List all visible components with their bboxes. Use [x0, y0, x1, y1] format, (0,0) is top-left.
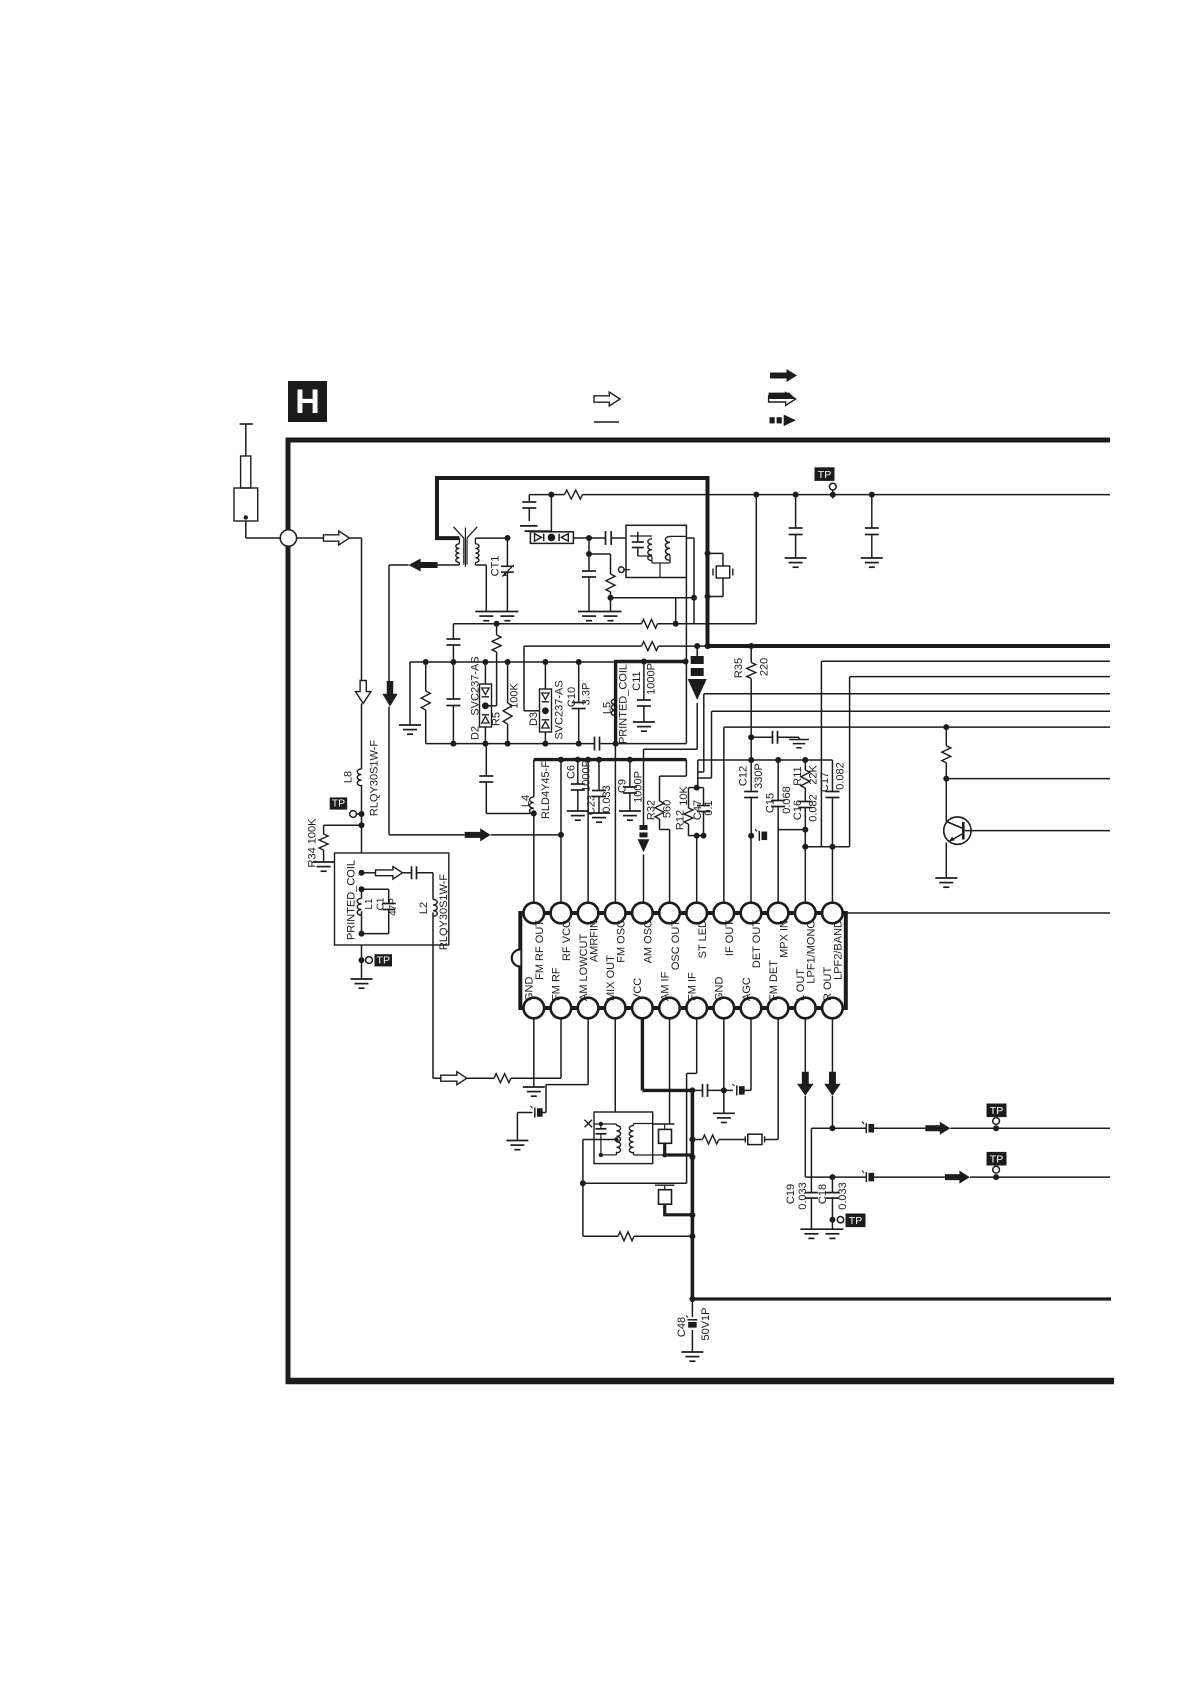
ground (L1 tank): [351, 979, 373, 988]
svg-text:50V1P: 50V1P: [700, 1307, 712, 1340]
legend half-filled arrow: [769, 393, 796, 406]
pin13 ground: [533, 1018, 535, 1087]
svg-text:LPF2/BAND: LPF2/BAND: [833, 920, 845, 980]
svg-text:L8: L8: [342, 771, 354, 783]
svg-text:L5: L5: [601, 702, 613, 714]
svg-text:560: 560: [661, 800, 673, 818]
R OUT line: [829, 1125, 835, 1131]
frame border bottom: [286, 1378, 1115, 1385]
IC pin top 1 (FM RF OUT): [524, 903, 545, 924]
node junction circle: [280, 530, 296, 546]
wire arrow down-left rail: [389, 564, 409, 566]
svg-text:PRINTED_COIL: PRINTED_COIL: [345, 860, 357, 940]
svg-text:R32: R32: [645, 800, 657, 820]
ground (resistor): [600, 612, 622, 621]
svg-text:AM IF: AM IF: [659, 971, 671, 1001]
primary bottom lead to arrow: [438, 564, 460, 566]
svg-text:22K: 22K: [807, 765, 819, 785]
pin24 R OUT arrow: [831, 1018, 833, 1072]
svg-text:RLQY30S1W-F: RLQY30S1W-F: [438, 874, 450, 950]
riser to exit 1: [820, 661, 822, 846]
svg-text:0.033: 0.033: [601, 785, 613, 813]
D1 tuning feed stem: [550, 495, 552, 532]
legend open arrow: [594, 392, 620, 406]
cap C12 330P: [748, 757, 754, 763]
svg-text:FM IF: FM IF: [687, 972, 699, 1001]
sheet zone label H: [288, 381, 327, 422]
svg-text:L OUT: L OUT: [795, 969, 807, 1001]
IC pin top 4 (FM OSC): [605, 903, 626, 924]
resistor across rails: [423, 659, 429, 665]
svg-text:PRINTED_COIL: PRINTED_COIL: [617, 664, 629, 744]
svg-text:220: 220: [758, 658, 770, 676]
svg-text:1000P: 1000P: [645, 663, 657, 695]
svg-text:L1: L1: [364, 898, 375, 910]
coil L8: [357, 769, 361, 786]
exit wire 1: [821, 660, 1110, 662]
RF VCC thick rail: [534, 758, 687, 761]
solid arrow right (FM RF to L4): [389, 834, 465, 836]
rail corner to R12/C47: [697, 760, 699, 788]
tuning voltage line to edge: [551, 494, 564, 496]
coupling cap after D1: [573, 537, 589, 539]
cap to ground under node: [588, 538, 590, 554]
svg-text:D3: D3: [528, 712, 540, 726]
FM osc feed wire with resistor: [524, 645, 642, 647]
small polarity mark: [755, 829, 767, 841]
cap C18 0.033: [831, 1128, 833, 1192]
svg-text:AGC: AGC: [741, 977, 753, 1001]
svg-text:R5: R5: [490, 712, 502, 726]
svg-text:TP: TP: [818, 469, 831, 481]
D3 feed from FM osc line: [524, 710, 540, 712]
LPF node link: [805, 846, 849, 848]
svg-text:R OUT: R OUT: [822, 967, 834, 1002]
cap lower on feed line: [452, 662, 454, 699]
svg-text:C23: C23: [585, 795, 597, 815]
open arrow down on L8 line: [355, 681, 371, 704]
exit wire from pin12 area: [846, 912, 1110, 914]
L5 bottom feed to pin4: [614, 744, 616, 903]
IC pin top 2 (RF VCC): [551, 903, 572, 924]
VCC feed to AM OSC (segmented arrows): [694, 643, 700, 649]
wire antenna to junction: [245, 521, 247, 538]
IC pin top 7 (ST LED): [686, 903, 707, 924]
svg-text:330P: 330P: [753, 763, 765, 789]
IC IF/MPX (24-pin): [520, 913, 846, 1008]
AGC line from resistor to tuner: [611, 597, 695, 599]
ceramic filter CF2: [655, 1184, 674, 1186]
L5 printed coil box: [616, 662, 687, 744]
corner up to tuning line: [755, 495, 757, 624]
pin20 ground: [721, 1087, 727, 1093]
main audio/ground bus: [691, 1090, 695, 1299]
svg-text:TP: TP: [990, 1154, 1003, 1166]
cap C9 1000P: [627, 757, 633, 763]
svg-text:R34 100K: R34 100K: [306, 818, 318, 868]
FM DET discriminator X2: [689, 1137, 695, 1143]
AM osc top rail: [410, 661, 616, 663]
svg-text:TP: TP: [332, 798, 345, 810]
L2 line down to AM mixer: [432, 945, 434, 1078]
svg-text:FM DET: FM DET: [768, 960, 780, 1001]
svg-text:47P: 47P: [388, 898, 399, 916]
svg-text:GND: GND: [714, 977, 726, 1002]
capacitor C11 1000P: [641, 659, 647, 665]
IC pin top 8 (IF OUT): [714, 903, 735, 924]
svg-text:0.033: 0.033: [797, 1182, 809, 1210]
pin14 riser: [560, 1018, 562, 1078]
TP (L8): [330, 797, 348, 809]
PRINTED_COIL module box (L1/L2/C1): [335, 853, 449, 945]
svg-text:L4: L4: [520, 795, 532, 807]
wire to L8 branch: [350, 537, 362, 539]
IC pin bottom 22 (FM DET): [768, 998, 789, 1019]
detector rail: [750, 737, 752, 760]
svg-text:D2: D2: [469, 726, 481, 740]
base line: [945, 779, 947, 822]
VCC rail from pin17: [641, 1018, 644, 1090]
antenna AN1: [240, 423, 253, 425]
svg-text:R12: R12: [674, 810, 686, 830]
coupling cap: [412, 866, 417, 879]
varactor feed line (AM): [452, 624, 454, 639]
FM IF link line: [583, 1182, 687, 1184]
ceramic filter CF1: [653, 1123, 675, 1125]
pin16 riser: [614, 1018, 616, 1112]
svg-text:10K: 10K: [678, 786, 690, 806]
IFT right edge drop to L5 box: [685, 578, 687, 662]
pin9 riser: [750, 836, 752, 903]
svg-text:C16: C16: [792, 800, 804, 820]
IC pin bottom 23 (L OUT): [795, 998, 816, 1019]
svg-text:0.1: 0.1: [703, 800, 715, 815]
svg-text:R35: R35: [733, 658, 745, 678]
coupling cap on bottom rail: [595, 737, 600, 751]
bypass cap to ground (1): [793, 492, 799, 498]
IC pin bottom 16 (MIX OUT): [605, 998, 626, 1019]
cap C17 0.082: [831, 760, 833, 792]
damping resistor: [589, 553, 611, 555]
AM bottom rail: [426, 743, 594, 745]
svg-text:RF VCC: RF VCC: [561, 920, 573, 961]
svg-text:C48: C48: [676, 1317, 688, 1337]
capacitor C10 3.3P: [576, 659, 582, 665]
riser to exit 2: [849, 677, 851, 847]
IC pin bottom 19 (FM IF): [686, 998, 707, 1019]
bypass cap to ground (2): [869, 492, 875, 498]
svg-text:C12: C12: [737, 766, 749, 786]
svg-text:0.082: 0.082: [807, 794, 819, 822]
coil L2: [432, 873, 434, 900]
cap C15 0.068: [775, 757, 781, 763]
svg-text:FM OSC: FM OSC: [616, 920, 628, 963]
cap C23 0.033: [596, 757, 602, 763]
svg-text:VCC: VCC: [632, 978, 644, 1001]
pin19 FM IF chain: [696, 1018, 698, 1073]
svg-text:C11: C11: [631, 671, 643, 690]
open arrow to L2: [376, 867, 403, 880]
AM IFT block T1: [594, 1112, 653, 1164]
X1 discriminator on bus: [705, 550, 711, 556]
svg-text:AM OSC: AM OSC: [643, 920, 655, 963]
pin21 riser: [750, 1018, 752, 1090]
cap C6 1000P: [575, 757, 581, 763]
svg-text:1000P: 1000P: [632, 771, 644, 803]
pin2 riser: [558, 757, 564, 763]
coil L4 RLD4Y45-F: [533, 760, 535, 797]
svg-text:SVC237-AS: SVC237-AS: [553, 680, 565, 739]
exit wire (base node): [946, 778, 1110, 780]
legend plain line: [594, 421, 619, 423]
svg-text:0.033: 0.033: [837, 1182, 849, 1210]
bus thick junctions: [689, 1154, 695, 1160]
exit wire 5 (IF OUT): [724, 726, 1110, 728]
svg-text:GND: GND: [524, 977, 536, 1002]
ground (transformer): [475, 612, 497, 621]
feedback resistor row: [583, 1235, 618, 1237]
legend segmented arrow: [770, 415, 796, 427]
IC pin top 10 (MPX IN): [768, 903, 789, 924]
cap to ground (R35 node): [751, 736, 772, 738]
svg-text:C10: C10: [566, 687, 578, 707]
IC pin bottom 13 (GND): [524, 998, 545, 1019]
svg-text:C18: C18: [817, 1184, 829, 1204]
svg-text:SVC237-AS: SVC237-AS: [469, 656, 481, 715]
svg-text:100K: 100K: [508, 682, 520, 708]
IC pin top 9 (DET OUT): [741, 903, 762, 924]
varactor diode D2: [482, 659, 488, 665]
svg-text:FM RF: FM RF: [551, 967, 563, 1001]
svg-text:C1: C1: [376, 897, 387, 910]
tuning line cap + AC ground: [529, 494, 551, 496]
TP (C18): [846, 1214, 866, 1228]
transformer secondary top lead to node: [475, 537, 507, 539]
IC pin top 12 (LPF2/BAND): [822, 903, 843, 924]
exit wire 2: [850, 676, 1110, 678]
exit wire 3 (ST LED): [704, 693, 1110, 695]
IC pin bottom 15 (AM LOWCUT): [578, 998, 599, 1019]
svg-text:RLD4Y45-F: RLD4Y45-F: [540, 761, 552, 819]
signal arrow (open): [324, 531, 350, 545]
resistor R35 220: [748, 643, 754, 649]
cap C19 0.033: [810, 1128, 812, 1192]
svg-text:C6: C6: [565, 765, 577, 779]
ground (C11): [633, 722, 655, 731]
TP (R OUT): [987, 1104, 1007, 1118]
svg-text:DET OUT: DET OUT: [751, 920, 763, 968]
pin3 riser: [585, 757, 591, 763]
thick feed bus from transformer to right: [437, 478, 1110, 646]
svg-text:RLQY30S1W-F: RLQY30S1W-F: [368, 740, 380, 816]
svg-text:IF OUT: IF OUT: [724, 920, 736, 956]
TP (tuning line): [815, 467, 835, 481]
svg-text:FM RF OUT: FM RF OUT: [534, 920, 546, 980]
audio return bus to edge: [689, 1296, 695, 1302]
svg-text:3.3P: 3.3P: [580, 683, 592, 706]
frame border top: [286, 438, 1111, 443]
IC pin bottom 20 (GND): [714, 998, 735, 1019]
svg-text:TP: TP: [377, 954, 390, 966]
ground (rail): [399, 725, 421, 734]
svg-text:ST LED: ST LED: [697, 920, 709, 958]
svg-text:MIX OUT: MIX OUT: [605, 955, 617, 1001]
IC pin top 6 (OSC OUT): [659, 903, 680, 924]
FM IFT block (tuner unit): [626, 525, 686, 577]
AM RF input chain: [432, 1077, 434, 1079]
svg-text:TP: TP: [849, 1215, 862, 1227]
IC pin top 11 (LPF1/MONO): [795, 903, 816, 924]
cap on feed line: [446, 639, 460, 645]
trimmer capacitor CT1: [506, 538, 508, 566]
secondary bottom lead to ground: [475, 564, 486, 566]
ground (emitter): [935, 878, 957, 887]
collector exit wire: [965, 830, 1110, 832]
ground (lowcut): [506, 1141, 528, 1150]
svg-text:CT1: CT1: [489, 556, 501, 577]
svg-text:0.082: 0.082: [834, 762, 846, 790]
IC pin bottom 17 (VCC): [632, 998, 653, 1019]
frame border left: [286, 438, 291, 1384]
resistor R34 100K to ground: [359, 822, 365, 828]
R11 22K + C16 0.082: [802, 757, 808, 763]
IC pin bottom 21 (AGC): [741, 998, 762, 1019]
D2 branch down / cap to L4: [485, 744, 487, 776]
svg-text:C15: C15: [764, 793, 776, 813]
exit wire 4 (IF): [712, 710, 1111, 712]
svg-text:MPX IN: MPX IN: [778, 920, 790, 958]
L5 coil: [611, 699, 615, 716]
cap C48 50V1P: [691, 1299, 693, 1317]
svg-text:TP: TP: [990, 1105, 1003, 1117]
svg-text:LPF1/MONO: LPF1/MONO: [806, 920, 818, 984]
svg-text:1000P: 1000P: [580, 760, 592, 792]
coil L1: [359, 886, 365, 892]
varactor diode D3: [542, 659, 548, 665]
R12 10K / C47 0.1 parallel: [694, 785, 700, 791]
svg-text:C19: C19: [785, 1184, 797, 1204]
IC pin bottom 24 (R OUT): [822, 998, 843, 1019]
ground (cap): [578, 612, 600, 621]
pin15 lowcut network: [587, 1018, 589, 1084]
cap C1 47P: [362, 888, 389, 890]
IC pin bottom 18 (AM IF): [659, 998, 680, 1019]
IC pin bottom 14 (FM RF): [551, 998, 572, 1019]
resistor R (varactor bias): [492, 635, 501, 652]
ground (CT1): [496, 612, 518, 621]
node in box: [359, 870, 365, 876]
resistor R5 100K: [505, 659, 511, 665]
TP (L OUT): [987, 1152, 1007, 1166]
L OUT line: [805, 1176, 866, 1178]
block left lead (center tap): [583, 1139, 617, 1141]
rail drop to ground: [409, 662, 411, 725]
IC pin top 3 (AMRFIN): [578, 903, 599, 924]
svg-text:R11: R11: [792, 766, 804, 785]
resistor R32 560: [686, 775, 759, 777]
svg-text:L2: L2: [418, 902, 430, 914]
svg-text:OSC OUT: OSC OUT: [670, 920, 682, 970]
transformer T FM ANT (CT1 area): [458, 538, 460, 544]
svg-text:AMRFIN: AMRFIN: [588, 920, 600, 962]
TP below box: [361, 945, 363, 979]
solid arrow down (FM RF): [382, 681, 398, 707]
svg-text:C9: C9: [616, 779, 628, 793]
varactor diode D1 block: [505, 535, 511, 541]
resistor on tuning line: [548, 492, 554, 498]
arrow to FM mixer (solid left): [409, 559, 438, 572]
ground (R34): [313, 862, 335, 871]
pin23 L OUT arrow: [804, 1018, 806, 1072]
svg-text:H: H: [295, 383, 320, 421]
wire junction to arrow: [297, 537, 324, 539]
svg-text:AM LOWCUT: AM LOWCUT: [578, 934, 590, 1002]
IC pin top 5 (AM OSC): [632, 903, 653, 924]
transistor Q (ST LED driver): [943, 724, 949, 730]
legend solid arrow: [770, 369, 797, 382]
